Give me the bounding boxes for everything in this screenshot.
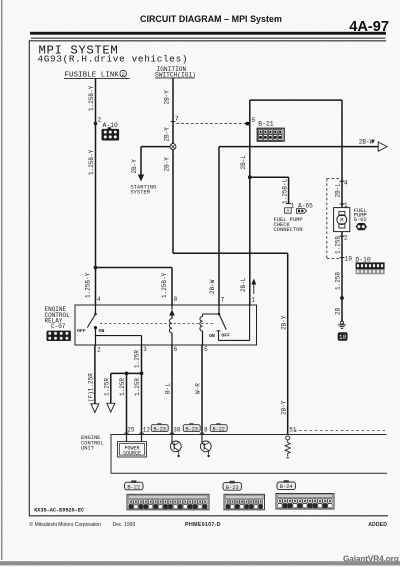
svg-text:2: 2 [344, 234, 348, 241]
wire pin 6 to ECU pin 38 B-L [171, 345, 173, 435]
wire to starting system [141, 146, 170, 148]
page left edge line [1, 0, 3, 560]
fuel pump motor G-02 [334, 208, 350, 232]
node splice dot [340, 296, 344, 300]
dashed wire to B-21 pin 5 [177, 123, 246, 125]
connector A-10 icon [102, 127, 120, 140]
svg-text:ADDED: ADDED [368, 522, 387, 528]
wire ignition horizontal to right then down to ECU pin 51 [173, 252, 288, 254]
svg-text:1.25B: 1.25B [334, 272, 341, 290]
transistor at pin 38 [170, 435, 181, 458]
svg-text:12: 12 [143, 426, 151, 433]
svg-text:2B-L: 2B-L [240, 155, 247, 170]
svg-text:1.25B-Y: 1.25B-Y [88, 85, 95, 111]
svg-text:1.25B-Y: 1.25B-Y [161, 272, 168, 298]
connector D-10 icon [356, 262, 385, 274]
svg-text:OFF: OFF [77, 328, 86, 334]
dashed line from pin 51 [294, 430, 386, 432]
relay coil right (pins 7-5) [200, 305, 219, 345]
svg-text:10: 10 [345, 255, 353, 262]
svg-text:4: 4 [344, 180, 348, 187]
svg-text:SOURCE: SOURCE [123, 451, 141, 457]
svg-text:PHME9107-D: PHME9107-D [185, 522, 221, 528]
svg-text:7: 7 [221, 296, 225, 303]
svg-text:B-23: B-23 [226, 485, 239, 491]
relay pin 6 [169, 344, 174, 346]
header thick rule [30, 32, 386, 35]
svg-text:SYSTEM: SYSTEM [131, 189, 150, 195]
svg-text:OFF: OFF [221, 332, 230, 338]
connector B-24 pinout label [277, 480, 295, 490]
header thin rule [31, 38, 386, 39]
svg-text:38: 38 [173, 426, 181, 433]
pin 1 fuel pump [340, 203, 345, 205]
arrow down to starting system [138, 175, 144, 182]
svg-text:2: 2 [97, 347, 101, 354]
relay pin 5 [200, 344, 205, 346]
svg-text:2B-Y: 2B-Y [163, 157, 170, 172]
relay right switch contact [217, 305, 250, 340]
svg-text:C-07: C-07 [51, 323, 66, 330]
svg-text:1: 1 [251, 296, 255, 303]
svg-text:4G93(R.H.drive vehicles): 4G93(R.H.drive vehicles) [38, 54, 189, 65]
relay internal link to pin 3 [96, 335, 142, 337]
wire B-21 2B-L vertical [249, 100, 251, 305]
svg-text:ON: ON [209, 333, 215, 339]
svg-text:B-22: B-22 [127, 484, 140, 490]
svg-text:2: 2 [122, 72, 125, 78]
svg-text:B-21: B-21 [258, 121, 274, 128]
svg-text:G-02: G-02 [354, 217, 367, 223]
svg-text:© Mitsubishi Motors Corporatio: © Mitsubishi Motors Corporation [30, 521, 102, 528]
svg-text:51: 51 [289, 426, 297, 433]
svg-text:KX35-AC-E0520-EC: KX35-AC-E0520-EC [34, 507, 84, 513]
svg-text:2B: 2B [334, 307, 341, 315]
relay pin 4 [93, 304, 98, 306]
connector B-22 pinout label [125, 480, 143, 490]
svg-text:1.25R: 1.25R [119, 378, 126, 396]
ground symbol [338, 321, 346, 328]
svg-text:2B-Y: 2B-Y [163, 127, 170, 142]
flow arrow up beside 2B-L [253, 283, 255, 294]
svg-text:2B-Y: 2B-Y [280, 400, 287, 415]
svg-text:2B-Y: 2B-Y [163, 90, 170, 105]
mechanical link dashed [100, 322, 214, 324]
svg-text:8: 8 [204, 426, 208, 433]
relay pin 1 [247, 304, 252, 306]
relay pin 3 [139, 344, 144, 346]
svg-text:2: 2 [98, 116, 102, 123]
svg-text:5: 5 [252, 117, 256, 124]
svg-text:(F)1.25R: (F)1.25R [88, 373, 95, 402]
svg-text:2B-Y: 2B-Y [131, 159, 138, 174]
svg-text:W-R: W-R [195, 383, 202, 394]
svg-text:2B-W: 2B-W [359, 139, 374, 146]
node T junction [140, 372, 144, 376]
relay coil left (pins 8-6) [169, 305, 175, 345]
svg-text:1.25R: 1.25R [133, 350, 140, 368]
svg-text:CIRCUIT DIAGRAM – MPI System: CIRCUIT DIAGRAM – MPI System [140, 14, 282, 24]
pin 2 fuel pump [340, 235, 345, 237]
svg-text:6: 6 [174, 346, 178, 353]
svg-text:2B-L: 2B-L [334, 183, 341, 198]
svg-text:A: A [287, 208, 290, 214]
wire pin 5 to ECU pin 8 W-R [201, 345, 203, 435]
ECU box [111, 435, 387, 474]
svg-text:B-24: B-24 [280, 484, 293, 490]
bottom gray band [0, 561, 400, 565]
wire 2B-W horizontal to page edge arrow [219, 146, 378, 148]
power source box [118, 435, 147, 458]
svg-text:1.25B-Y: 1.25B-Y [84, 272, 91, 298]
svg-text:1.25B-L: 1.25B-L [281, 178, 288, 204]
svg-text:1.25R: 1.25R [134, 378, 141, 396]
svg-text:8: 8 [174, 296, 178, 303]
node junction dot feed split [94, 266, 98, 270]
wire (F)1.25R from pin 2 [94, 345, 96, 405]
wire ignition 2B-Y vertical [172, 78, 174, 253]
relay pin 8 [169, 304, 174, 306]
wire fusible link 1.25B-Y vertical [95, 78, 97, 305]
svg-text:B-23: B-23 [153, 426, 165, 432]
svg-text:2B-W: 2B-W [209, 279, 216, 294]
dashed tank outline [326, 179, 328, 259]
open arrow down pin2 [91, 404, 99, 413]
svg-text:CONNECTOR: CONNECTOR [274, 227, 304, 233]
svg-text:M: M [340, 217, 343, 224]
svg-text:B-L: B-L [165, 383, 172, 394]
splice symbol circle-x [170, 144, 176, 150]
diagram frame [29, 41, 388, 516]
wire to fuel pump check connector A-65 [250, 176, 289, 178]
transistor at pin 8 [200, 435, 211, 458]
svg-text:2B-L: 2B-L [240, 277, 247, 292]
svg-text:10: 10 [339, 334, 347, 341]
svg-text:25: 25 [127, 426, 135, 433]
svg-text:UNIT: UNIT [81, 446, 95, 452]
resistor at pin 51 [285, 436, 290, 458]
svg-text:B-23: B-23 [185, 426, 197, 432]
svg-text:1.25B: 1.25B [334, 236, 341, 254]
node 2 junction dot [94, 122, 98, 126]
node junction dot on 2B-L [248, 175, 252, 179]
connector C-07 icon [47, 331, 71, 341]
ground ref boxed 10 [338, 332, 348, 341]
relay C-07 box [75, 305, 257, 345]
svg-text:1.25R: 1.25R [104, 378, 111, 396]
symbol boxed A [285, 208, 292, 213]
svg-text:B-22: B-22 [212, 426, 224, 432]
relay left switch contact [87, 305, 97, 345]
wire branch arrow left [110, 373, 112, 404]
connector B-21 icon [257, 128, 284, 141]
pin 4 tank connector [340, 180, 345, 182]
svg-text:ON: ON [99, 328, 105, 334]
connector B-24 pinout body [276, 494, 334, 510]
svg-text:2B-Y: 2B-Y [280, 315, 287, 330]
connector B-22 pinout body [127, 494, 209, 510]
off-page open arrow [378, 142, 387, 151]
wire pin 3 down to ECU pin 12 [141, 345, 143, 435]
svg-text:7: 7 [175, 116, 179, 123]
wire below pump [341, 232, 343, 322]
G-02 seal badge [356, 223, 367, 230]
svg-text:5: 5 [204, 346, 208, 353]
svg-text:3: 3 [143, 346, 147, 353]
wire top loop to fuel pump column [250, 99, 342, 101]
connector B-23 pinout body [224, 494, 265, 510]
svg-text:1.25B-Y: 1.25B-Y [88, 149, 95, 175]
connector A-65 icon [297, 208, 307, 213]
pin 10 D-10 [340, 257, 345, 259]
wire branch to ECU pin 25 [126, 373, 128, 434]
relay pin 2 [93, 344, 98, 346]
wire branch to relay pin 8 [96, 267, 173, 269]
svg-text:Dec. 1993: Dec. 1993 [113, 522, 136, 528]
svg-text:4: 4 [97, 296, 101, 303]
connector B-23 pinout label [223, 481, 241, 491]
relay pin 7 [216, 304, 221, 306]
